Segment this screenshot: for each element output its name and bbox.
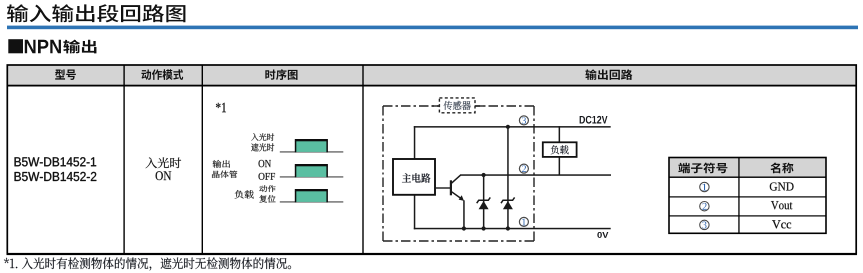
label OFF (259, 173, 276, 180)
terminal table header rule (669, 177, 826, 178)
terminal table outer border (669, 158, 826, 234)
mode text 入光时 (146, 157, 182, 168)
section heading 输出 (63, 40, 96, 54)
wire: top rail (Vcc) (414, 126, 611, 128)
zener diode at x=507.9 (501, 197, 515, 209)
sensor label text 传感器 (444, 101, 471, 110)
table pin 3 symbol (700, 220, 709, 229)
label 遮光时 (251, 143, 274, 151)
load box 负载 (543, 142, 577, 157)
terminal pin 1 digit (522, 219, 526, 226)
wire: bottom rail (0V) (414, 228, 611, 230)
terminal pin 3 digit (522, 117, 526, 124)
supply label DC12V (580, 116, 608, 124)
main table bottom border (thick) (7, 253, 857, 255)
footnote *1 (4, 258, 291, 271)
load text (551, 145, 569, 154)
blue title underline (7, 26, 858, 30)
waveform baseline ON/OFF (280, 176, 344, 178)
waveform baseline 入光/遮光 (280, 151, 344, 153)
terminal pin 2 digit (522, 165, 526, 172)
terminal name GND (770, 182, 794, 190)
table pin 1 symbol (700, 182, 709, 191)
main circuit box 主电路 (393, 159, 435, 195)
header cell 时序图 (265, 69, 297, 80)
page title 输入输出段回路图 (7, 4, 185, 22)
wire stubs joining sensor label (432, 105, 441, 106)
terminal pin 2 circle (519, 164, 528, 173)
waveform pulse 入光/遮光 (295, 139, 328, 152)
header bottom rule (7, 85, 856, 87)
footnote marker *1 (216, 103, 226, 112)
transistor Q1 collector (451, 175, 461, 184)
mode text ON (156, 171, 172, 180)
terminal table row rule 1 (669, 196, 826, 197)
header cell 型号 (55, 69, 76, 80)
terminal name Vcc (772, 220, 791, 228)
main table outer border (7, 65, 856, 254)
junction: D2 top on Vcc rail (506, 125, 510, 129)
label 晶体管 (212, 171, 237, 178)
terminal header 端子符号 (678, 163, 727, 174)
terminal table row rule 2 (669, 215, 826, 216)
zener diode D1 wire (Vout to 0V) (483, 175, 485, 229)
zener diode D2 wire (Vcc to 0V) (507, 127, 509, 229)
transistor Q1 base bar (450, 180, 452, 195)
terminal pin 3 circle (519, 116, 528, 125)
label 动作 (259, 185, 275, 192)
sensor label box (439, 98, 475, 113)
column divider 2 (202, 65, 203, 254)
transistor Q1 (NPN) base wire (435, 187, 451, 188)
waveform baseline 动作/复位 (280, 201, 344, 203)
label 入光时 (251, 133, 274, 140)
column divider 3 (362, 65, 363, 254)
column divider 1 (123, 65, 124, 254)
terminal name Vout (771, 201, 792, 209)
section heading NPN输出 (25, 40, 61, 54)
junction: D2 bottom on 0V rail (506, 226, 510, 230)
sensor boundary (dash-dot box) 传感器 (383, 106, 534, 241)
wire: load branch vertical (559, 126, 561, 175)
terminal pin 1 circle (519, 217, 528, 226)
wire: emitter vertical to 0V (463, 200, 465, 228)
junction: D1 top on Vout rail (482, 173, 486, 177)
junction: D1 bottom on 0V rail (482, 226, 486, 230)
header cell 动作模式 (141, 69, 183, 80)
terminal table header fill (669, 158, 826, 178)
label ON (259, 160, 271, 167)
section bullet square (8, 39, 23, 53)
waveform pulse ON/OFF (295, 164, 328, 177)
wire: left vertical (main circuit to rails) (414, 126, 416, 159)
main table header fill (7, 65, 856, 86)
supply label 0V (597, 232, 608, 238)
table pin 2 symbol (700, 202, 709, 211)
label 负载 (235, 190, 254, 199)
terminal table column divider (738, 158, 739, 234)
junction: emitter on 0V rail (462, 226, 466, 230)
label 复位 (259, 195, 275, 203)
header cell 输出回路 (585, 69, 632, 80)
wire: middle rail (Vout) (460, 174, 611, 176)
model number B5W-DB1452-2 (15, 172, 97, 181)
transistor Q1 emitter with arrow (451, 191, 464, 201)
waveform pulse 动作/复位 (295, 189, 328, 202)
model number B5W-DB1452-1 (15, 157, 97, 166)
zener diode at x=483.6 (477, 197, 491, 209)
main circuit text (402, 173, 431, 183)
terminal header 名称 (770, 163, 793, 174)
label 输出 (213, 160, 230, 168)
